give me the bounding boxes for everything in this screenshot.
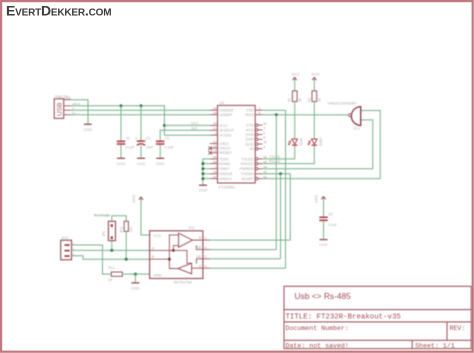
resistor R2 xyxy=(307,91,321,102)
ground under C9 xyxy=(319,240,328,248)
title block texts xyxy=(286,291,466,350)
resistor R11 xyxy=(120,221,134,232)
svg-text:JP1: JP1 xyxy=(102,231,106,237)
svg-text:18: 18 xyxy=(213,170,217,174)
supply VCC arrow at C9 xyxy=(313,194,325,203)
wire R2 to LED2 xyxy=(313,102,315,140)
wire R net xyxy=(210,239,290,241)
svg-text:VCC: VCC xyxy=(191,121,199,125)
svg-text:USB: USB xyxy=(56,102,63,116)
svg-text:TXLED: TXLED xyxy=(269,155,281,159)
svg-text:SN75176A: SN75176A xyxy=(174,281,193,285)
wire terminate net xyxy=(112,216,126,222)
U1 left pin names xyxy=(219,109,234,181)
svg-text:SLEEP: SLEEP xyxy=(241,177,254,181)
svg-text:25: 25 xyxy=(213,160,217,164)
svg-text:GND: GND xyxy=(153,273,162,277)
X1 pin stubs xyxy=(64,100,71,115)
svg-text:4: 4 xyxy=(205,264,207,268)
svg-text:B: B xyxy=(152,255,155,259)
connector X1 USB xyxy=(54,95,68,118)
svg-text:A: A xyxy=(152,246,155,250)
svg-text:C5: C5 xyxy=(146,137,150,141)
IC2 DE internal stub xyxy=(196,259,203,264)
capacitor C5 polarized xyxy=(135,106,153,158)
wire VBUS net xyxy=(71,106,164,135)
svg-text:74AUC1G02DBV: 74AUC1G02DBV xyxy=(327,102,357,106)
svg-text:GND: GND xyxy=(319,242,328,247)
ground under C5 xyxy=(137,158,146,166)
svg-text:27: 27 xyxy=(213,140,217,144)
wire 3V3OUT to C1 xyxy=(160,130,210,140)
svg-text:28: 28 xyxy=(213,144,217,148)
X1 pin labels xyxy=(65,96,81,115)
wire TXD net to driver D xyxy=(262,110,285,268)
svg-text:VCC: VCC xyxy=(311,72,320,77)
node junction GND18 xyxy=(201,172,204,175)
IC2 driver triangle xyxy=(178,263,192,274)
U1 right pin names xyxy=(239,109,254,181)
svg-text:R: R xyxy=(199,236,202,240)
node junction internal A xyxy=(172,249,175,252)
svg-text:AGND: AGND xyxy=(219,162,230,166)
wire PWREN net to gate input B xyxy=(262,120,372,169)
node junction VBUS/C5 xyxy=(140,104,143,107)
svg-text:TXDEN: TXDEN xyxy=(241,172,254,176)
svg-text:Sheet: 1/1: Sheet: 1/1 xyxy=(415,343,455,350)
svg-text:USBDM: USBDM xyxy=(219,109,233,113)
node junction AGND xyxy=(201,162,204,165)
supply VCC arrow at R2 xyxy=(311,72,320,81)
ground under C2 xyxy=(117,158,126,166)
svg-text:VCC: VCC xyxy=(153,234,161,238)
node junction internal B xyxy=(168,258,171,261)
svg-text:3V3: 3V3 xyxy=(191,126,197,130)
wire SV1 pin3 net B xyxy=(72,256,150,259)
svg-text:6: 6 xyxy=(263,145,265,149)
svg-text:LED1: LED1 xyxy=(299,138,303,147)
node junction VBUS/C2 xyxy=(120,104,123,107)
wire VCC to R2 xyxy=(313,81,315,91)
ground symbol below R13 xyxy=(131,283,140,291)
title block frame xyxy=(284,286,471,348)
node junction GND21 xyxy=(201,177,204,180)
capacitor C2 xyxy=(117,106,134,158)
svg-text:R11: R11 xyxy=(120,226,124,232)
capacitor C1 xyxy=(156,137,174,158)
svg-text:2: 2 xyxy=(205,246,207,250)
svg-text:0.1uF: 0.1uF xyxy=(165,146,174,150)
svg-text:1K: 1K xyxy=(108,278,113,282)
wire GND drop xyxy=(134,274,136,282)
svg-text:15: 15 xyxy=(213,111,217,115)
node junction GND7 xyxy=(201,167,204,170)
svg-text:FT232RL: FT232RL xyxy=(219,185,236,190)
supply VCC arrow at IC2 xyxy=(131,194,143,203)
svg-text:20: 20 xyxy=(213,122,217,126)
ground symbol under U1 xyxy=(199,185,208,193)
svg-text:VCCIO: VCCIO xyxy=(219,134,231,138)
node junction RXD/RE branch xyxy=(275,113,278,116)
jumper JP1 xyxy=(102,221,116,240)
wire JP1 to net A xyxy=(111,241,113,251)
svg-text:R1: R1 xyxy=(288,98,292,102)
IC2 right pin numbers xyxy=(205,236,207,268)
svg-text:2: 2 xyxy=(263,131,265,135)
svg-text:CTS: CTS xyxy=(246,124,254,128)
svg-text:10: 10 xyxy=(263,140,267,144)
svg-text:Usb <> Rs-485: Usb <> Rs-485 xyxy=(295,291,352,301)
svg-text:PWREN: PWREN xyxy=(239,167,253,171)
svg-text:TXLED: TXLED xyxy=(241,157,253,161)
svg-text:GND: GND xyxy=(84,127,93,132)
svg-text:11: 11 xyxy=(263,121,266,125)
LED1 xyxy=(289,138,303,147)
svg-text:1K: 1K xyxy=(318,97,322,102)
wire RE net xyxy=(210,249,276,251)
svg-text:1K: 1K xyxy=(298,97,302,102)
wire SV1 pin2 net A xyxy=(72,249,150,251)
svg-text:DCD: DCD xyxy=(245,142,253,146)
svg-text:USBDP: USBDP xyxy=(219,113,233,117)
svg-text:26: 26 xyxy=(213,155,217,159)
svg-text:+: + xyxy=(135,136,137,140)
svg-text:GND21: GND21 xyxy=(219,177,232,181)
node junction R11/B xyxy=(125,258,128,261)
IC2 internal net B xyxy=(150,235,179,269)
U1 OSCO no-connect X xyxy=(208,146,212,150)
IC2 internal net A xyxy=(150,246,192,264)
wire DE branch xyxy=(280,174,282,259)
wire U1 ground bus TEST/AGND/GND pins xyxy=(203,159,210,185)
svg-text:TEST: TEST xyxy=(219,157,229,161)
wire VCC to R1 xyxy=(294,81,296,91)
svg-text:GND: GND xyxy=(65,96,73,100)
IC2 RE internal stub xyxy=(196,245,203,249)
svg-text:GND: GND xyxy=(156,161,165,166)
svg-text:VCC: VCC xyxy=(131,194,136,203)
svg-text:RXD: RXD xyxy=(246,113,254,117)
capacitor C9 xyxy=(319,200,337,239)
node junction GND tap xyxy=(134,273,137,276)
resistor R1 xyxy=(288,91,302,102)
svg-text:DSR: DSR xyxy=(246,138,254,142)
U1 RESET no-connect X xyxy=(208,151,212,155)
transceiver IC2 SN75176A body xyxy=(150,226,203,285)
connector SV1 xyxy=(61,236,75,260)
svg-text:RTS: RTS xyxy=(246,128,254,132)
wire USBDM net D- xyxy=(71,109,210,111)
IC2 receiver triangle xyxy=(179,233,203,247)
svg-text:RI: RI xyxy=(250,147,254,151)
svg-text:U1: U1 xyxy=(220,101,225,105)
wire R1 to LED1 xyxy=(294,102,296,140)
IC U1 FT232RL body xyxy=(218,101,256,190)
svg-text:3V3OUT: 3V3OUT xyxy=(219,129,234,133)
svg-text:Document Number:: Document Number: xyxy=(286,325,349,332)
node junction VBUS/VCC pin xyxy=(163,124,166,127)
svg-text:Terminate: Terminate xyxy=(94,213,111,217)
svg-text:120: 120 xyxy=(129,227,133,233)
svg-text:D: D xyxy=(199,264,202,268)
U1 right pin stubs with bubbles xyxy=(255,110,262,180)
svg-text:SV1: SV1 xyxy=(61,236,68,240)
svg-text:10uF: 10uF xyxy=(146,146,154,150)
svg-text:RXLED: RXLED xyxy=(269,160,281,164)
svg-text:C2: C2 xyxy=(126,137,130,141)
wire VCC to IC2 xyxy=(141,200,150,235)
svg-text:VCC: VCC xyxy=(292,72,301,77)
wire SLEEP net to gate input A xyxy=(262,111,380,179)
svg-text:GND7: GND7 xyxy=(219,167,230,171)
svg-text:3: 3 xyxy=(263,126,265,130)
svg-text:GND: GND xyxy=(131,285,140,290)
node junction JP1/A xyxy=(110,249,113,252)
wire USBDP net D+ xyxy=(71,114,210,116)
svg-text:VCC: VCC xyxy=(313,194,318,203)
supply VCC arrow at R1 xyxy=(292,72,301,81)
svg-text:EvertDekker.com: EvertDekker.com xyxy=(6,3,111,19)
wire RE branch xyxy=(275,115,277,250)
svg-text:3: 3 xyxy=(205,255,207,259)
svg-text:DTR: DTR xyxy=(246,133,254,137)
svg-text:GND: GND xyxy=(117,161,126,166)
wire RXLED net xyxy=(262,146,314,164)
U1 right pin numbers xyxy=(259,106,267,178)
IC2 right pin stubs xyxy=(203,240,210,268)
wire R11 to net B xyxy=(125,231,127,259)
op-amp gate IC1 74AUC1G02 (mirrored NOR) xyxy=(327,102,361,131)
U1 left pin stubs xyxy=(210,110,218,178)
svg-text:0.1uF: 0.1uF xyxy=(328,223,337,227)
svg-text:TITLE: FT232R-Breakout-v35: TITLE: FT232R-Breakout-v35 xyxy=(286,314,401,322)
ground symbol at USB xyxy=(84,124,93,132)
svg-text:IC2: IC2 xyxy=(189,226,195,230)
wire DE net xyxy=(210,258,280,260)
svg-text:IC1: IC1 xyxy=(354,127,360,131)
svg-text:OSCO: OSCO xyxy=(219,147,230,151)
ground under C1 xyxy=(156,158,165,166)
svg-text:1: 1 xyxy=(205,236,207,240)
svg-text:GND18: GND18 xyxy=(219,172,232,176)
svg-text:R2: R2 xyxy=(307,98,311,102)
wire SV1 pin1 to R13 xyxy=(72,245,112,274)
svg-text:GND: GND xyxy=(137,161,146,166)
wire VCCIO to U1 xyxy=(164,134,210,136)
svg-text:RESET: RESET xyxy=(219,151,232,155)
resistor R13 xyxy=(108,266,122,282)
svg-text:RE: RE xyxy=(196,246,202,250)
wire TXDEN net to R pin route xyxy=(262,174,290,240)
wire VCC to U1 xyxy=(164,124,210,126)
svg-text:GND: GND xyxy=(199,188,208,193)
wire USB GND pin to ground xyxy=(71,100,88,124)
wire D net xyxy=(210,267,285,269)
svg-text:OSCI: OSCI xyxy=(219,142,228,146)
svg-text:LED2: LED2 xyxy=(318,138,322,147)
IC2 right pin names xyxy=(196,236,202,268)
svg-text:REV:: REV: xyxy=(450,325,466,332)
svg-text:16: 16 xyxy=(213,106,217,110)
svg-text:9: 9 xyxy=(263,136,265,140)
node junction TXDEN/DE branch xyxy=(279,172,282,175)
wire RXD net to gate output xyxy=(262,114,348,116)
svg-text:TXD: TXD xyxy=(246,109,254,113)
LED2 xyxy=(308,138,322,147)
svg-text:VCC: VCC xyxy=(219,124,227,128)
wire TXLED net xyxy=(262,146,294,159)
svg-text:21: 21 xyxy=(213,175,217,179)
svg-text:17: 17 xyxy=(213,127,217,131)
svg-text:19: 19 xyxy=(213,149,217,153)
svg-text:C9: C9 xyxy=(328,212,332,216)
wire R13 to IC2 GND pin xyxy=(122,273,149,275)
svg-text:RXLED: RXLED xyxy=(241,162,254,166)
IC2 D internal stub xyxy=(192,267,203,269)
svg-text:Date: not saved!: Date: not saved! xyxy=(286,343,349,350)
U1 left pin numbers xyxy=(213,106,217,178)
svg-text:DE: DE xyxy=(196,255,202,259)
svg-text:C1: C1 xyxy=(165,137,169,141)
svg-text:R13: R13 xyxy=(108,266,114,270)
svg-text:0.1uF: 0.1uF xyxy=(126,146,135,150)
